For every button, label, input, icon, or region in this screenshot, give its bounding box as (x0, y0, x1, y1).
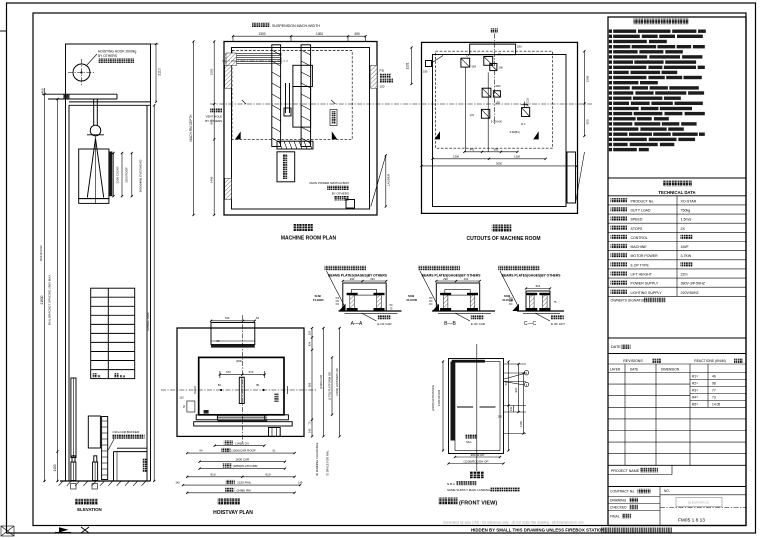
svg-text:R1=: R1= (692, 375, 698, 379)
svg-text:1300: 1300 (258, 32, 265, 36)
svg-text:BY OTHERS: BY OTHERS (332, 192, 349, 196)
svg-text:145: 145 (307, 428, 311, 433)
svg-text:180: 180 (517, 45, 522, 49)
svg-text:SUB: SUB (504, 294, 511, 298)
svg-text:145: 145 (175, 481, 180, 485)
svg-text:BY OTHERS: BY OTHERS (205, 119, 222, 123)
svg-text:(260): (260) (236, 359, 242, 363)
svg-text:SILL: SILL (466, 440, 472, 444)
svg-text:(FRONT VIEW): (FRONT VIEW) (459, 501, 497, 507)
svg-text:DATE: DATE (630, 368, 638, 372)
svg-text:100: 100 (499, 66, 504, 70)
svg-text:14.05: 14.05 (712, 403, 720, 407)
svg-text:1300: 1300 (316, 32, 323, 36)
svg-text:P.B: P.B (380, 69, 384, 73)
svg-text:5-90(B1): 5-90(B1) (510, 130, 520, 134)
svg-text:(1200)ROUGH OP: (1200)ROUGH OP (463, 459, 488, 463)
svg-text:(1430) CAR: (1430) CAR (319, 375, 323, 389)
svg-text:SAME SUPPLY MAIN LANDING: SAME SUPPLY MAIN LANDING (447, 488, 491, 492)
svg-text:2X: 2X (681, 227, 686, 231)
svg-text:HOISTVAY PLAN: HOISTVAY PLAN (213, 510, 253, 516)
svg-text:Generated by auto CAD - for: Generated by auto CAD - for reference on… (443, 520, 584, 524)
svg-text:21800: 21800 (40, 295, 44, 304)
svg-text:1.5m/s: 1.5m/s (681, 218, 692, 222)
svg-text:R4=: R4= (692, 396, 698, 400)
svg-text:570: 570 (249, 370, 254, 374)
svg-text:1131: 1131 (406, 62, 410, 69)
svg-text:570: 570 (226, 370, 231, 374)
svg-text:431: 431 (464, 277, 469, 281)
svg-text:POWER SUPPLY: POWER SUPPLY (631, 282, 659, 286)
svg-text:1595: 1595 (586, 75, 590, 82)
svg-text:2110: 2110 (158, 68, 162, 75)
svg-text:MOTOR POWER: MOTOR POWER (631, 254, 659, 258)
svg-text:1003: 1003 (210, 68, 214, 75)
svg-text:73: 73 (712, 396, 716, 400)
svg-text:3000: 3000 (496, 162, 502, 166)
svg-text:CONTROL: CONTROL (631, 236, 648, 240)
svg-text:900: 900 (514, 387, 518, 392)
svg-text:E.OP TYPE: E.OP TYPE (631, 263, 650, 267)
svg-text:441: 441 (470, 147, 475, 151)
svg-text:DIMENSION: DIMENSION (661, 368, 680, 372)
svg-text:N.B:A: N.B:A (447, 482, 455, 486)
svg-text:ELEVATOR CO.: ELEVATOR CO. (688, 501, 710, 505)
svg-text:LAYER: LAYER (610, 368, 621, 372)
svg-text:77: 77 (712, 389, 716, 393)
svg-text:SPEED: SPEED (631, 218, 643, 222)
svg-text:561: 561 (536, 284, 541, 288)
svg-text:FM05 1 8 13: FM05 1 8 13 (678, 518, 705, 524)
svg-text:64: 64 (256, 316, 260, 320)
svg-text:MAIN POWER SWITCH BOX: MAIN POWER SWITCH BOX (309, 181, 349, 185)
svg-text:1A: 1A (466, 54, 469, 58)
svg-text:2100 DOOR: 2100 DOOR (437, 389, 441, 406)
svg-text:STOPS: STOPS (631, 227, 643, 231)
svg-text:BEAMS PLATES(GAGES)BY OTHERS: BEAMS PLATES(GAGES)BY OTHERS (502, 274, 562, 278)
svg-text:11.3: 11.3 (521, 123, 526, 126)
svg-text:PROJECT NAME: PROJECT NAME (611, 469, 640, 473)
svg-text:380V·3Φ·50HZ: 380V·3Φ·50HZ (681, 282, 706, 286)
svg-text:B1: B1 (218, 383, 222, 387)
svg-text:250: 250 (498, 415, 503, 419)
svg-text:910: 910 (210, 472, 215, 476)
svg-text:BEAMS PLATES(GAGES)BY OTHERS: BEAMS PLATES(GAGES)BY OTHERS (328, 274, 388, 278)
svg-text:ELEVATION: ELEVATION (77, 507, 101, 512)
svg-text:E.OF LIFT: E.OF LIFT (551, 322, 565, 326)
svg-text:(1500)CAR ROOF: (1500)CAR ROOF (231, 449, 256, 453)
svg-text:145: 145 (298, 481, 303, 485)
svg-text:30 RUNNING CLEARANCE: 30 RUNNING CLEARANCE (315, 442, 319, 476)
svg-text:255: 255 (307, 330, 311, 335)
svg-text:B—B: B—B (444, 321, 456, 327)
svg-text:FLOOR: FLOOR (313, 298, 324, 302)
svg-text:(1450) OV: (1450) OV (235, 441, 249, 445)
svg-text:LIGHTING SUPPLY: LIGHTING SUPPLY (631, 291, 663, 295)
svg-text:450: 450 (41, 88, 45, 93)
svg-text:DRAWING: DRAWING (610, 499, 627, 503)
svg-text:150: 150 (380, 85, 385, 89)
svg-text:CHECKED: CHECKED (610, 506, 627, 510)
svg-text:110: 110 (179, 396, 184, 400)
svg-text:HIDDEN BY SMALL THIS DRAWING U: HIDDEN BY SMALL THIS DRAWING UNLESS FIRE… (471, 528, 605, 533)
svg-text:Ad: Ad (498, 52, 502, 56)
svg-text:MACH.RM DEPTH: MACH.RM DEPTH (189, 114, 193, 142)
svg-text:BY OTHERS: BY OTHERS (98, 54, 118, 58)
svg-text:OWNER'S SIGNATURE: OWNER'S SIGNATURE (611, 299, 649, 303)
svg-text:130: 130 (509, 406, 513, 411)
svg-text:540: 540 (504, 380, 508, 385)
svg-text:1600 CAR: 1600 CAR (235, 457, 250, 461)
svg-text:230.2118: 230.2118 (527, 98, 530, 108)
svg-text:TECHNICAL DATA: TECHNICAL DATA (658, 190, 695, 195)
svg-text:E.OF CAR: E.OF CAR (471, 322, 486, 326)
svg-text:1300: 1300 (453, 154, 459, 158)
svg-text:1M/F: 1M/F (681, 245, 690, 249)
svg-text:R5=: R5= (692, 403, 698, 407)
svg-text:CUTOUTS OF MACHINE ROOM: CUTOUTS OF MACHINE ROOM (466, 236, 540, 242)
svg-text:TRAVEL 3300: TRAVEL 3300 (146, 312, 150, 331)
svg-text:R2=: R2= (692, 382, 698, 386)
svg-text:853: 853 (210, 119, 214, 124)
svg-text:RAIL BRACKET SPACING 2500 MAX: RAIL BRACKET SPACING 2500 MAX (48, 275, 52, 325)
svg-text:FINAL: FINAL (610, 515, 620, 519)
svg-text:3650(MIN) OVERHEAD: 3650(MIN) OVERHEAD (139, 159, 143, 193)
svg-text:180: 180 (423, 70, 428, 74)
svg-text:R2110.6mm: R2110.6mm (39, 244, 43, 261)
svg-text:5-300×30: 5-300×30 (491, 120, 503, 124)
svg-text:LIFT HEIGHT: LIFT HEIGHT (631, 273, 653, 277)
svg-text:2350 ROOF: 2350 ROOF (125, 167, 129, 183)
svg-text:1468: 1468 (210, 176, 214, 183)
svg-text:Ø33: Ø33 (496, 84, 501, 88)
svg-text:583: 583 (472, 65, 477, 69)
svg-text:NO.: NO. (664, 489, 670, 493)
svg-text:FLOOR: FLOOR (503, 298, 514, 302)
svg-text:R.A: R.A (120, 374, 126, 378)
svg-text:XO-STAR: XO-STAR (681, 199, 697, 203)
svg-text:1300: 1300 (514, 154, 520, 158)
svg-text:B1: B1 (256, 383, 260, 387)
svg-text:150: 150 (496, 101, 501, 105)
svg-text:431: 431 (370, 277, 375, 281)
svg-text:(2300) ENTRANCE: (2300) ENTRANCE (431, 385, 435, 411)
svg-text:C—C: C—C (524, 321, 537, 327)
svg-text:SUB: SUB (408, 294, 415, 298)
svg-text:2150 RAIL: 2150 RAIL (237, 481, 252, 485)
svg-text:2100 CLEAR: 2100 CLEAR (116, 167, 120, 184)
svg-text:A—A: A—A (351, 321, 363, 327)
svg-text:290: 290 (350, 277, 355, 281)
svg-text:R.: R. (98, 374, 101, 378)
svg-text:220V/50HZ: 220V/50HZ (681, 291, 700, 295)
svg-text:(2480) RM: (2480) RM (237, 488, 252, 492)
svg-text:75 SPACE FOR RAIL: 75 SPACE FOR RAIL (326, 450, 330, 476)
svg-text:SUB: SUB (315, 294, 322, 298)
svg-text:46: 46 (712, 375, 716, 379)
svg-text:(2150) HOISTWAY HD: (2150) HOISTWAY HD (335, 368, 339, 395)
svg-text:290: 290 (443, 277, 448, 281)
svg-text:1100: 1100 (519, 421, 523, 427)
svg-text:BEAMS PLATES(GAGES)BY OTHERS: BEAMS PLATES(GAGES)BY OTHERS (422, 274, 482, 278)
svg-text:PRODUCT No.: PRODUCT No. (631, 199, 655, 203)
svg-text:700: 700 (225, 316, 230, 320)
svg-text:750kg: 750kg (681, 209, 691, 213)
svg-text:3.7KW: 3.7KW (681, 254, 692, 258)
svg-text:R3=: R3= (692, 389, 698, 393)
svg-text:REACTIONS (KN/M): REACTIONS (KN/M) (694, 359, 725, 363)
svg-text:1400: 1400 (53, 464, 57, 471)
svg-text:650: 650 (586, 119, 590, 124)
svg-text:REVISIONS: REVISIONS (623, 359, 643, 363)
svg-text:MACHINE ROOM PLAN: MACHINE ROOM PLAN (281, 236, 337, 242)
svg-text:131: 131 (470, 113, 475, 117)
svg-text:CONTRACT No.: CONTRACT No. (610, 490, 635, 494)
svg-text:DATE: DATE (611, 345, 621, 349)
svg-text:LADDER: LADDER (387, 173, 391, 186)
svg-text:424: 424 (307, 341, 311, 346)
svg-text:E.OF CAR: E.OF CAR (377, 322, 392, 326)
svg-text:910: 910 (265, 472, 270, 476)
svg-text:22m: 22m (681, 273, 688, 277)
svg-text:FLOOR: FLOOR (407, 298, 418, 302)
svg-text:650: 650 (494, 147, 499, 151)
svg-text:450: 450 (354, 32, 360, 36)
svg-text:MACHINE: MACHINE (631, 245, 648, 249)
svg-text:DUTY LOAD: DUTY LOAD (631, 209, 651, 213)
svg-text:(1850)PLATFORM: (1850)PLATFORM (233, 464, 258, 468)
svg-text:CW+CAR BUFFER: CW+CAR BUFFER (113, 430, 140, 434)
svg-text:HOISTING HOOK 2000kg: HOISTING HOOK 2000kg (98, 50, 136, 54)
svg-text:SUSPENSION MACH.WIDTH: SUSPENSION MACH.WIDTH (272, 24, 320, 28)
svg-text:366: 366 (307, 382, 311, 387)
svg-text:(1770) PLATFORM OD: (1770) PLATFORM OD (327, 372, 331, 400)
svg-text:98: 98 (712, 382, 716, 386)
svg-text:900 W.OP: 900 W.OP (471, 453, 485, 457)
